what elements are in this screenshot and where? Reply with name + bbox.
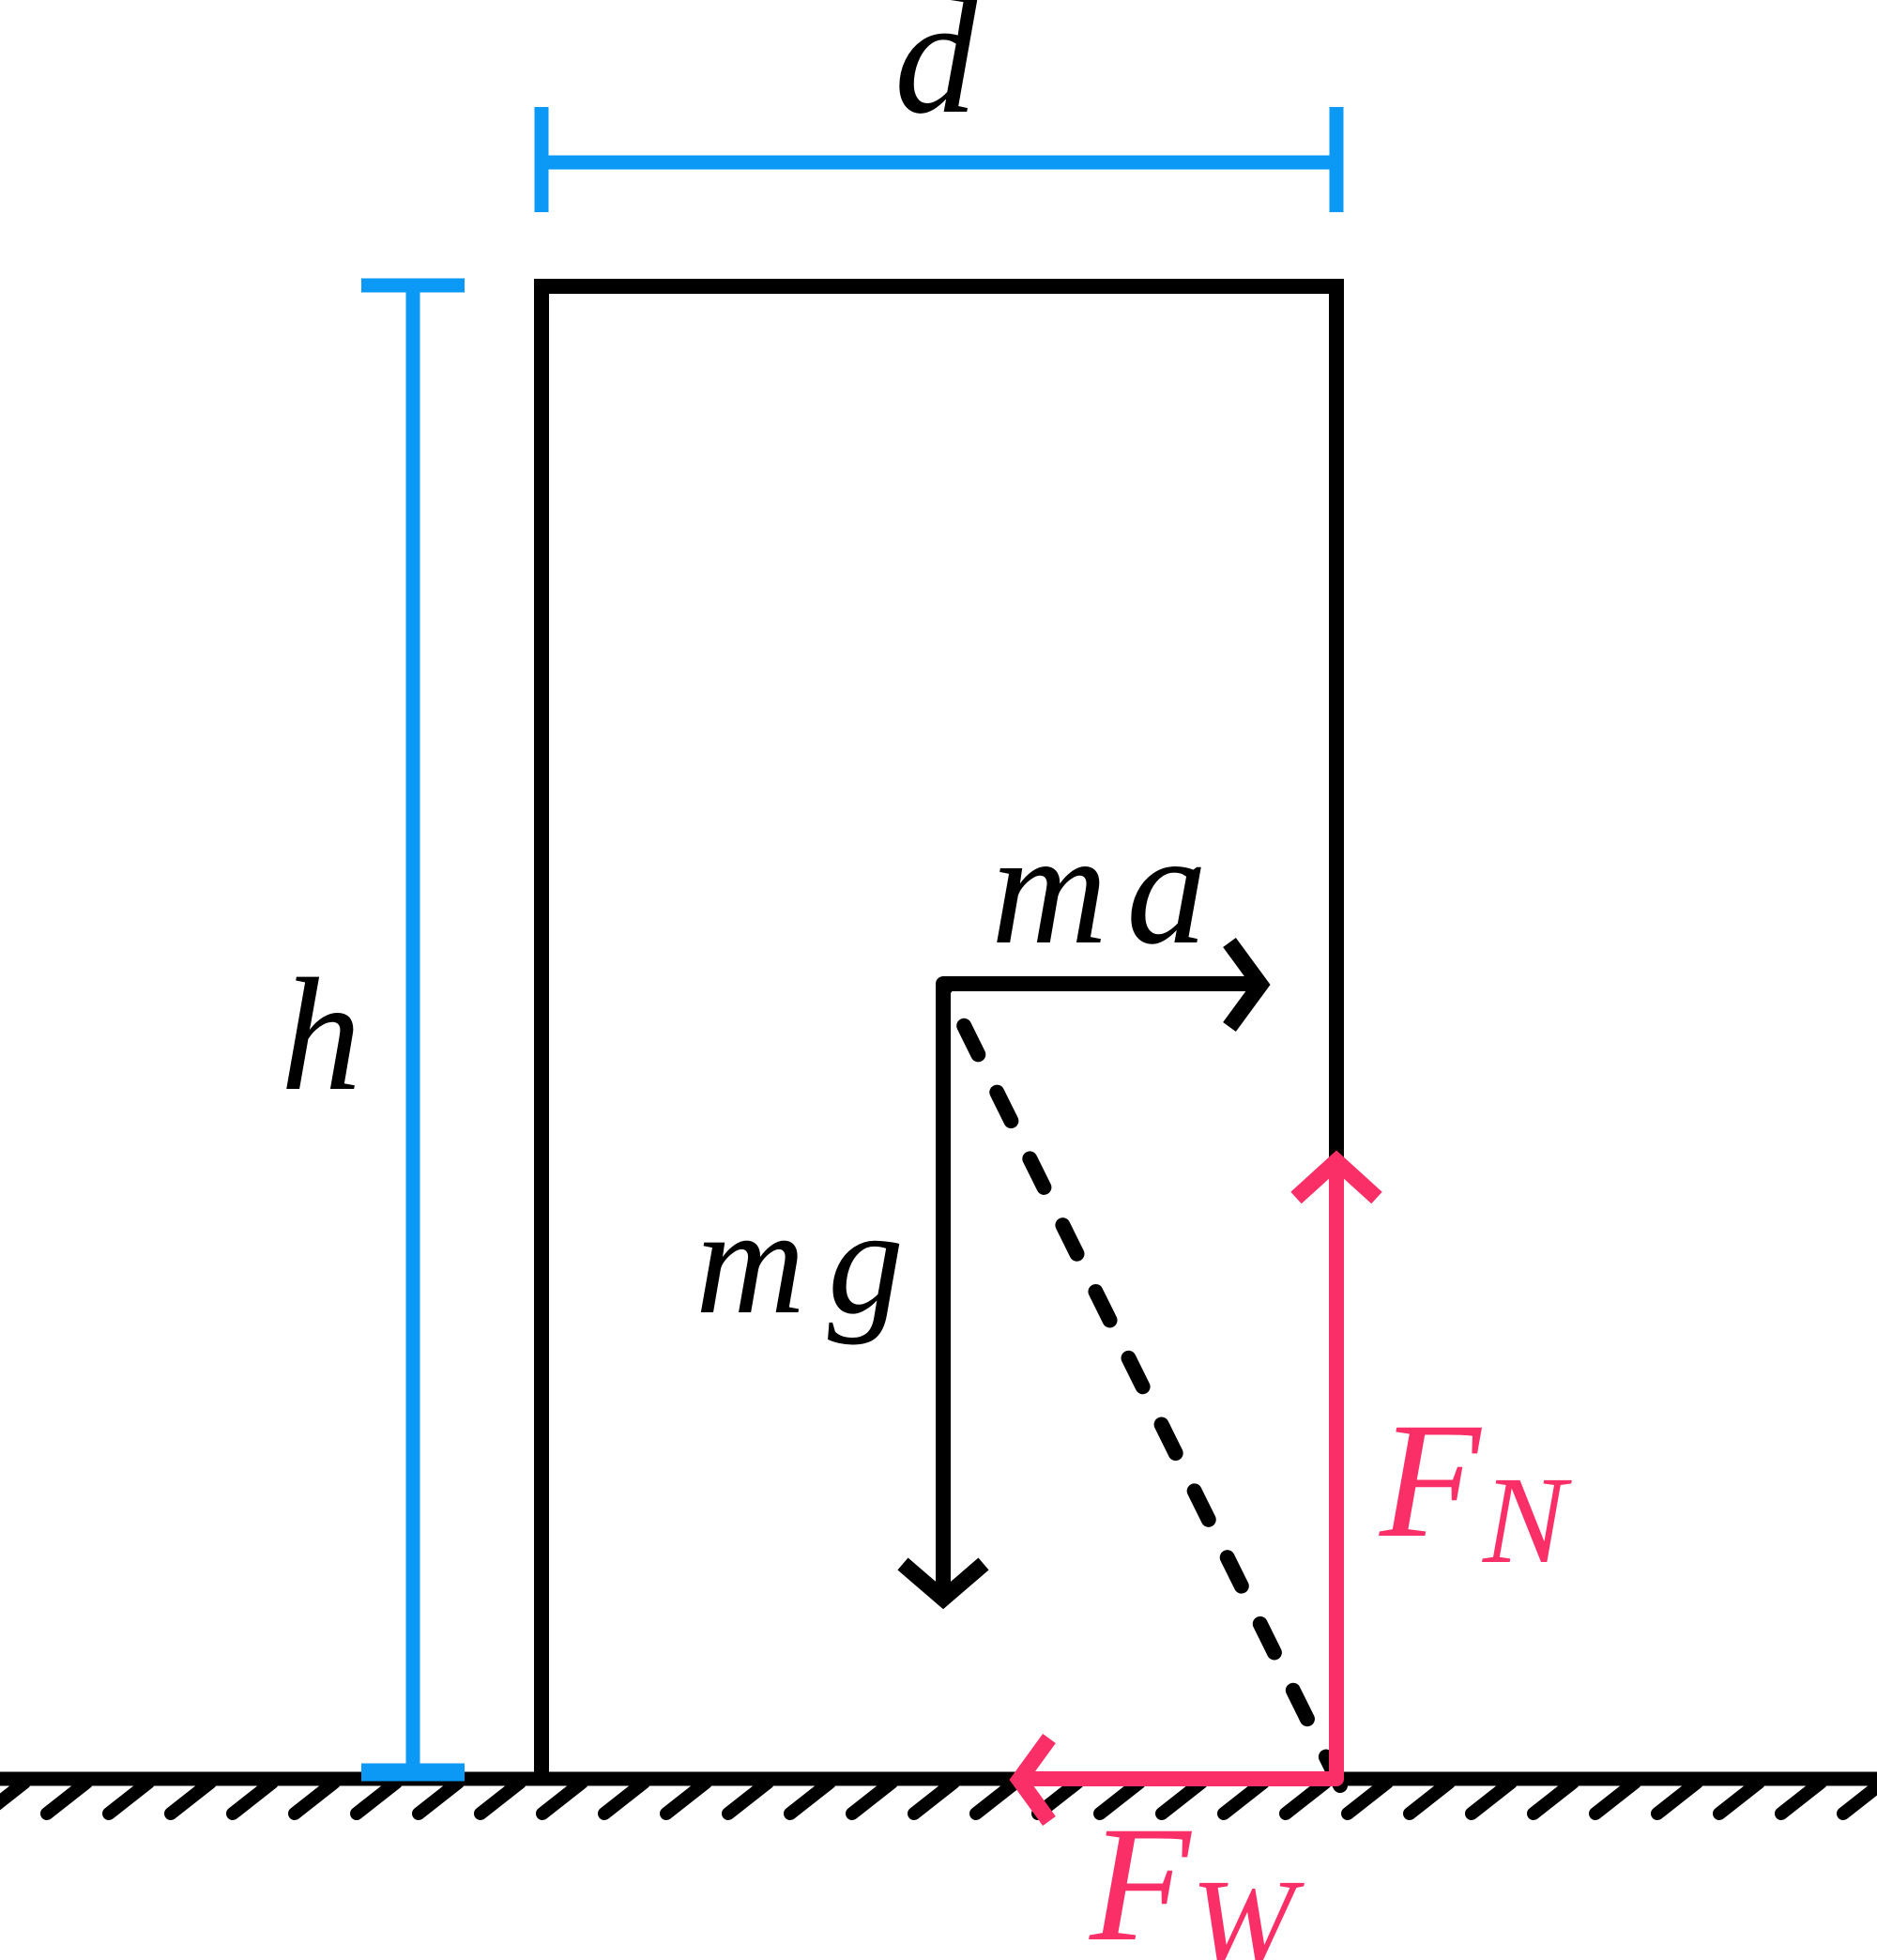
svg-text:mg: mg (695, 1178, 926, 1346)
svg-text:W: W (1191, 1853, 1305, 1960)
dashed resultant line (943, 984, 1340, 1785)
dimension d line (542, 107, 1336, 212)
svg-text:F: F (1089, 1793, 1192, 1960)
ground hatching (0, 1783, 1877, 1814)
F_N and F_W arrows (pink) (1017, 1164, 1336, 1779)
svg-text:d: d (894, 0, 978, 148)
svg-text:F: F (1379, 1389, 1482, 1572)
mg arrow (936, 984, 951, 1601)
svg-text:h: h (281, 946, 361, 1125)
svg-text:N: N (1482, 1450, 1572, 1589)
block (rectangle) (542, 286, 1336, 1779)
ma arrow (943, 976, 1263, 991)
ground line (0, 1772, 1877, 1786)
svg-text:ma: ma (991, 800, 1226, 978)
dimension h line (361, 285, 465, 1772)
